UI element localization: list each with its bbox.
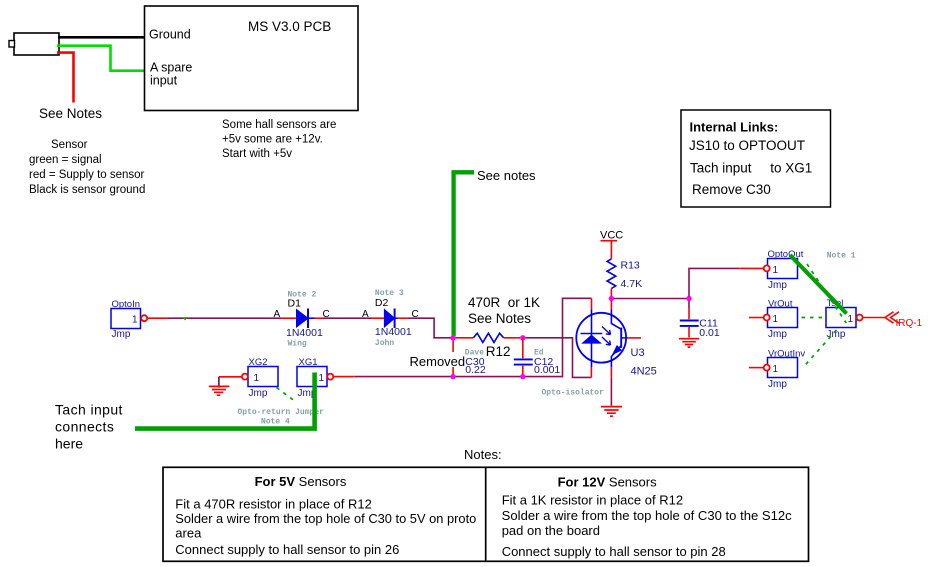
- diode D2 1N4001: [362, 297, 419, 338]
- svg-text:pad on the board: pad on the board: [502, 523, 600, 538]
- svg-text:red = Supply to sensor: red = Supply to sensor: [29, 169, 145, 181]
- svg-text:0.01: 0.01: [699, 327, 720, 339]
- resistor R12: [456, 333, 520, 359]
- connector VrOutInv: [749, 349, 805, 390]
- svg-text:connects: connects: [55, 419, 114, 435]
- note label: Opto-isolator: [542, 389, 605, 398]
- wire: see notes (green): [454, 168, 536, 336]
- svg-text:1: 1: [319, 373, 325, 384]
- svg-text:Note 4: Note 4: [261, 417, 290, 426]
- svg-text:R13: R13: [621, 260, 640, 272]
- svg-text:Note 2: Note 2: [288, 290, 317, 299]
- svg-text:Jmp: Jmp: [768, 329, 787, 340]
- note: 470R or 1K / See Notes: [468, 295, 540, 326]
- svg-text:1: 1: [773, 314, 779, 325]
- connector VrOut: [749, 299, 798, 340]
- note: sensor wiring legend: [29, 139, 145, 196]
- svg-text:Fit a 1K resistor in place of: Fit a 1K resistor in place of R12: [502, 493, 683, 508]
- note label: John: [375, 339, 394, 348]
- node junction C30 top: [450, 335, 455, 340]
- svg-text:For 12V Sensors: For 12V Sensors: [558, 475, 657, 490]
- svg-text:Tach input to XG1: Tach input to XG1: [690, 161, 812, 176]
- connector OptoIn: [111, 299, 147, 340]
- svg-text:here: here: [55, 436, 83, 452]
- svg-text:Note 1: Note 1: [827, 251, 856, 260]
- svg-text:4.7K: 4.7K: [621, 278, 643, 290]
- wire bottom return rail (XG1 to LED cathode top): [334, 298, 592, 376]
- svg-text:A: A: [362, 309, 369, 320]
- svg-text:See Notes: See Notes: [39, 106, 102, 121]
- wire tach input (green): [135, 373, 315, 429]
- opto-isolator U3 4N25: [576, 310, 656, 378]
- wire R12 node to LED anode (bottom): [526, 338, 592, 378]
- green dashed link OptoOut to Tsel: [807, 264, 846, 323]
- svg-text:Start with +5v: Start with +5v: [222, 148, 292, 160]
- note label: Note 3: [375, 289, 404, 298]
- wire: sensor supply (red): [57, 53, 74, 103]
- connector XG1: [297, 357, 333, 399]
- svg-text:1: 1: [254, 373, 260, 384]
- svg-text:See Notes: See Notes: [468, 311, 531, 326]
- note: tach input connects here: [55, 402, 123, 452]
- svg-text:+5v some are +12v.: +5v some are +12v.: [222, 134, 323, 146]
- wire: sensor ground (black): [58, 36, 145, 39]
- resistor R13: [607, 259, 642, 296]
- svg-text:Jmp: Jmp: [112, 329, 131, 340]
- notes table: [163, 467, 809, 561]
- ground (opto emitter): [601, 407, 622, 417]
- node junction R13 bottom: [609, 296, 614, 301]
- wire D1 to D2: [308, 317, 384, 319]
- note label: Opto-return Jumper / Note 4: [238, 408, 325, 426]
- svg-text:1: 1: [773, 265, 779, 276]
- svg-text:input: input: [150, 74, 178, 88]
- svg-text:0.22: 0.22: [465, 364, 486, 376]
- svg-text:Opto-return Jumper: Opto-return Jumper: [238, 408, 325, 417]
- node junction C12 bottom: [520, 374, 525, 379]
- svg-text:green = signal: green = signal: [29, 154, 102, 166]
- capacitor C11: [680, 301, 720, 339]
- svg-text:1: 1: [132, 315, 138, 326]
- MS V3.0 PCB box: [145, 6, 359, 111]
- wire D2 to R12 node: [395, 318, 451, 338]
- Internal Links box: [681, 110, 831, 207]
- svg-text:Notes:: Notes:: [464, 447, 502, 462]
- svg-text:XG2: XG2: [249, 357, 268, 368]
- note label: Note 2: [288, 290, 317, 299]
- svg-text:Solder a wire from the top hol: Solder a wire from the top hole of C30 t…: [175, 511, 476, 526]
- svg-text:Tach input: Tach input: [55, 402, 123, 418]
- svg-text:1: 1: [848, 314, 854, 325]
- capacitor C12: [514, 338, 561, 376]
- svg-text:1N4001: 1N4001: [286, 327, 323, 339]
- svg-text:Opto-isolator: Opto-isolator: [542, 389, 605, 398]
- svg-text:VrOut: VrOut: [768, 299, 793, 310]
- sensor body: [9, 33, 59, 55]
- svg-text:OptoOut: OptoOut: [768, 249, 804, 260]
- ground (XG2): [209, 386, 229, 395]
- wire: sensor signal (green): [57, 46, 145, 71]
- connector Tsel: [826, 298, 863, 340]
- wire emitter to ground: [610, 367, 612, 406]
- svg-text:John: John: [375, 339, 394, 348]
- connector OptoOut: [764, 249, 804, 291]
- svg-text:Black is sensor ground: Black is sensor ground: [29, 184, 145, 196]
- svg-text:1: 1: [773, 364, 779, 375]
- svg-text:A spare: A spare: [150, 61, 192, 75]
- capacitor C30 (removed, lead stubs only): [453, 341, 486, 376]
- connector XG2: [242, 357, 278, 399]
- node junction C30 bottom: [450, 374, 455, 379]
- svg-text:Internal Links:: Internal Links:: [690, 120, 779, 135]
- wire XG2 to ground: [219, 377, 242, 388]
- diode D1 1N4001: [274, 298, 330, 340]
- svg-text:Connect supply to hall sensor: Connect supply to hall sensor to pin 26: [175, 542, 399, 557]
- green dashed link VrOut to Tsel: [802, 317, 825, 319]
- green link wire (solid diagonal): [790, 255, 847, 314]
- wire Tsel to IRQ-1: [863, 312, 923, 329]
- power VCC: [600, 230, 623, 259]
- svg-text:Connect supply to hall sensor: Connect supply to hall sensor to pin 28: [502, 544, 726, 559]
- svg-text:IRQ-1: IRQ-1: [896, 318, 923, 329]
- svg-text:Dave: Dave: [465, 348, 484, 357]
- svg-text:Fit a 470R resistor in place o: Fit a 470R resistor in place of R12: [175, 497, 372, 512]
- svg-text:MS V3.0 PCB: MS V3.0 PCB: [248, 19, 331, 34]
- svg-text:Ground: Ground: [149, 28, 191, 42]
- svg-text:A: A: [274, 309, 281, 320]
- ground (C11): [679, 339, 699, 347]
- svg-text:R12: R12: [486, 344, 511, 359]
- svg-text:JS10 to OPTOOUT: JS10 to OPTOOUT: [689, 138, 805, 153]
- svg-text:1N4001: 1N4001: [375, 326, 412, 338]
- note: hall sensor voltages: [222, 119, 336, 160]
- svg-text:Solder a wire from the top hol: Solder a wire from the top hole of C30 t…: [502, 508, 792, 523]
- note label: Note 1: [827, 251, 856, 260]
- svg-text:VrOutInv: VrOutInv: [768, 349, 805, 360]
- svg-text:See notes: See notes: [477, 168, 536, 183]
- svg-text:Jmp: Jmp: [768, 280, 787, 291]
- svg-text:For 5V Sensors: For 5V Sensors: [255, 474, 347, 489]
- svg-text:0.001: 0.001: [534, 364, 560, 376]
- svg-text:Removed: Removed: [410, 354, 466, 369]
- svg-text:4N25: 4N25: [631, 365, 657, 377]
- note label: Dave: [465, 348, 484, 357]
- svg-text:Note 3: Note 3: [375, 289, 404, 298]
- wire to OptoOut: [689, 268, 763, 296]
- svg-text:Jmp: Jmp: [768, 379, 787, 390]
- note label: Wing: [288, 340, 307, 349]
- svg-text:Some hall sensors are: Some hall sensors are: [222, 119, 336, 131]
- note label: Ed: [534, 348, 544, 357]
- svg-text:470R or 1K: 470R or 1K: [468, 295, 540, 310]
- node junction C11 top: [686, 296, 691, 301]
- svg-text:Wing: Wing: [288, 340, 307, 349]
- svg-text:XG1: XG1: [299, 357, 318, 368]
- svg-text:area: area: [175, 526, 202, 541]
- svg-text:U3: U3: [631, 347, 645, 359]
- svg-text:Ed: Ed: [534, 348, 544, 357]
- wire collector rail: [611, 299, 689, 310]
- green dashes near XG1: [277, 388, 295, 401]
- svg-text:OptoIn: OptoIn: [112, 299, 141, 310]
- node junction C12 top: [520, 335, 525, 340]
- green dashed link Tsel to VrOutInv: [803, 330, 837, 368]
- notes heading: [464, 447, 502, 462]
- wire OptoIn to D1: [147, 317, 296, 320]
- svg-text:Jmp: Jmp: [249, 388, 268, 399]
- note: Removed: [410, 354, 466, 369]
- svg-text:Remove C30: Remove C30: [692, 182, 771, 197]
- svg-text:D2: D2: [375, 297, 389, 309]
- svg-text:Sensor: Sensor: [51, 139, 88, 151]
- note: see notes (sensor): [39, 106, 102, 121]
